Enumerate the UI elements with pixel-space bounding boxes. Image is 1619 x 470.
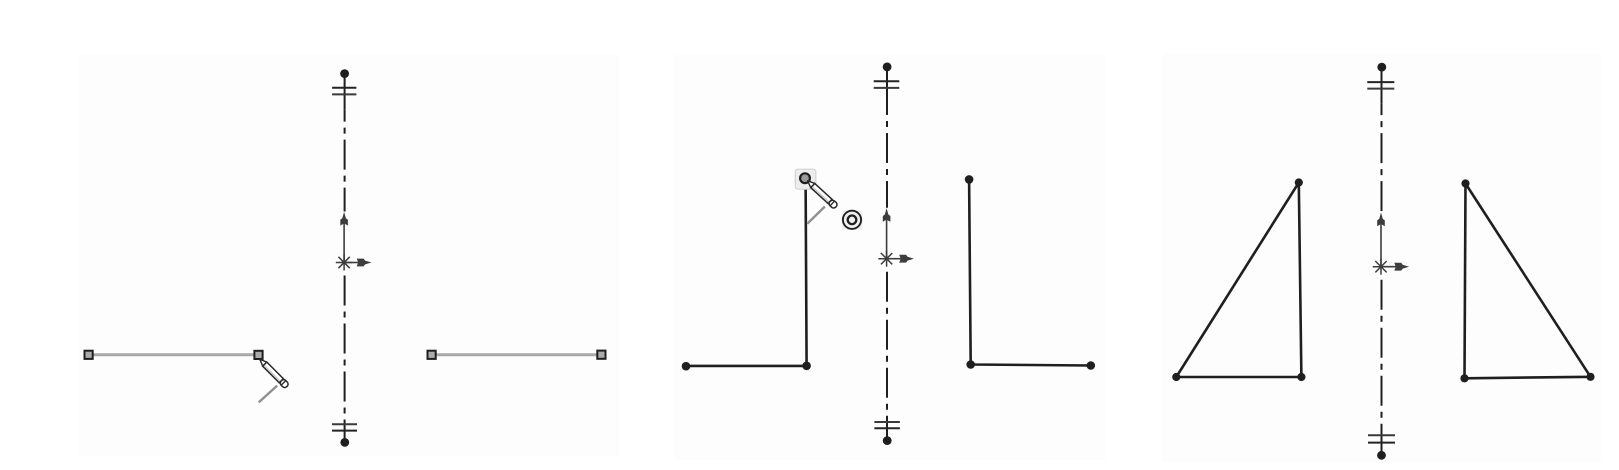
origin symbol panel1: [336, 212, 372, 271]
inference line gray panel2: [807, 207, 825, 224]
centerline panel1 upper dash-dot segment: [344, 110, 346, 212]
mirror hash marks bottom panel2: [874, 421, 900, 423]
coincident symbol inner circle panel2: [848, 216, 857, 225]
centerline top endpoint dot panel1: [340, 69, 349, 78]
centerline bottom endpoint dot panel1: [340, 438, 349, 447]
mirrored sketch line right (gray): [432, 353, 601, 356]
mirror hash marks top panel1: [332, 87, 356, 89]
coincident feedback background panel2: [842, 210, 863, 230]
centerline bottom endpoint dot panel3: [1377, 451, 1386, 460]
selected sketch line left (gray): [89, 353, 258, 356]
endpoint highlight box panel2: [795, 169, 816, 189]
endpoint dot highlighted panel2: [800, 173, 810, 183]
mirror hash marks bottom panel3: [1368, 434, 1395, 436]
vertex dot bottom-right triangle-left: [1297, 373, 1305, 381]
centerline panel3 upper dash-dot segment: [1381, 103, 1383, 216]
coincident symbol outer circle panel2: [843, 211, 861, 229]
centerline panel3 solid top segment: [1381, 67, 1383, 103]
vertex dot top panel2-right: [965, 175, 974, 184]
vertex dot bottom-left triangle-right: [1460, 374, 1468, 382]
square endpoint mirrored-left: [428, 351, 436, 359]
L-shape polyline left panel2: [686, 181, 807, 366]
mirror hash marks bottom panel1: [332, 423, 357, 425]
panel background 3 (faint screenshot area): [1162, 53, 1601, 462]
centerline top endpoint dot panel2: [883, 63, 892, 72]
vertex dot top triangle-left: [1295, 178, 1303, 186]
vertex dot bottom-right triangle-right: [1586, 373, 1594, 381]
triangle right panel3: [1465, 184, 1591, 379]
vertex dot corner panel2-right: [966, 360, 975, 369]
origin symbol panel3: [1373, 213, 1409, 275]
triangle left panel3: [1176, 183, 1301, 378]
centerline top endpoint dot panel3: [1377, 63, 1386, 72]
panel background 2 (faint screenshot area): [674, 55, 1106, 460]
vertex dot bottom-left triangle-left: [1172, 373, 1180, 381]
centerline panel2 solid top segment: [886, 67, 888, 103]
inference line gray (panel1): [259, 386, 278, 403]
vertex dot corner panel2: [802, 362, 811, 371]
square endpoint mirrored-right: [597, 351, 605, 359]
L-shape polyline right panel2: [969, 179, 1091, 365]
origin symbol panel2: [878, 208, 914, 267]
square endpoint right: [254, 351, 262, 359]
vertex dot left-end panel2: [682, 362, 691, 371]
centerline panel1 lower dash-dot segment: [344, 276, 346, 443]
centerline panel3 lower dash-dot segment: [1381, 280, 1383, 456]
centerline bottom endpoint dot panel2: [883, 436, 892, 445]
pencil cursor panel1: [257, 357, 289, 389]
square endpoint left: [85, 351, 93, 359]
centerline panel1 solid top segment: [344, 74, 346, 110]
centerline panel2 upper dash-dot segment: [886, 103, 888, 208]
mirror hash marks top panel2: [874, 80, 900, 82]
vertex dot top triangle-right: [1461, 179, 1469, 187]
panel background 1 (faint screenshot area): [78, 55, 619, 456]
centerline panel2 lower dash-dot segment: [886, 272, 888, 441]
pencil cursor panel2: [805, 178, 838, 209]
vertex dot right-end panel2-right: [1087, 361, 1096, 370]
mirror hash marks top panel3: [1367, 81, 1394, 83]
